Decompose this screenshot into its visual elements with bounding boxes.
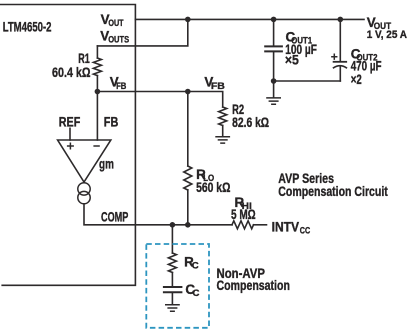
svg-text:OUTS: OUTS [108,35,129,46]
svg-text:×5: ×5 [285,53,299,68]
svg-text:COMP: COMP [101,210,128,225]
svg-text:REF: REF [59,115,81,130]
svg-text:Compensation Circuit: Compensation Circuit [278,184,388,199]
svg-text:LTM4650-2: LTM4650-2 [3,19,52,34]
svg-text:C: C [193,288,200,299]
svg-text:×2: ×2 [351,72,362,87]
svg-text:FB: FB [211,81,225,92]
svg-text:gm: gm [99,156,114,171]
svg-text:82.6 kΩ: 82.6 kΩ [232,115,269,130]
svg-text:FB: FB [116,81,126,92]
svg-text:FB: FB [104,115,119,130]
svg-text:INTV: INTV [272,219,300,234]
svg-text:5 MΩ: 5 MΩ [231,207,256,222]
svg-text:560 kΩ: 560 kΩ [196,180,231,195]
svg-text:1 V, 25 A: 1 V, 25 A [367,29,407,41]
svg-text:60.4 kΩ: 60.4 kΩ [52,65,91,80]
svg-text:OUT: OUT [108,18,123,29]
svg-text:Compensation: Compensation [217,278,290,293]
svg-text:C: C [192,260,199,271]
svg-text:CC: CC [300,225,310,236]
